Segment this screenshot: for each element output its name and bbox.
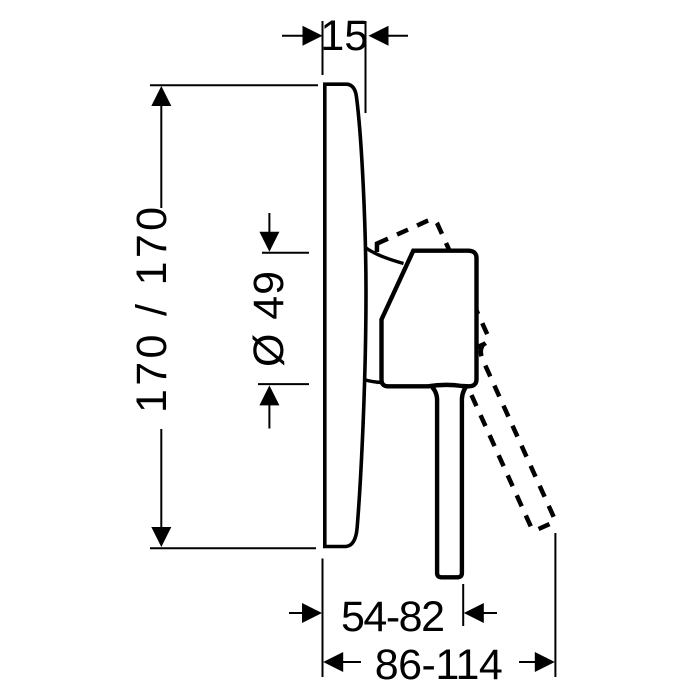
dim 54-82 arrowhead right bbox=[464, 603, 484, 623]
dim d49 ext line top bbox=[262, 252, 309, 254]
dim 54-82 arrow tail left bbox=[289, 612, 303, 614]
dim 15 ext line right bbox=[365, 21, 367, 113]
dim 170 arrowhead up bbox=[151, 86, 171, 106]
svg-text:86-114: 86-114 bbox=[375, 641, 503, 689]
svg-text:54-82: 54-82 bbox=[341, 593, 445, 641]
svg-text:Ø 49: Ø 49 bbox=[245, 271, 293, 367]
dim d49 arrowhead down bbox=[259, 232, 279, 252]
hub arc bottom bbox=[364, 380, 382, 383]
wall plate bbox=[325, 84, 366, 546]
dim d49 arrow tail top bbox=[268, 213, 270, 233]
hub mask bbox=[368, 252, 382, 380]
dim 54-82 arrowhead left bbox=[302, 603, 322, 623]
dim 170 ext line bottom bbox=[150, 547, 316, 549]
dim 15 arrowhead right bbox=[369, 26, 389, 46]
dim 15 ext line left bbox=[322, 21, 324, 75]
hub arc top bbox=[366, 248, 404, 264]
handle lever stem bbox=[429, 384, 469, 577]
dim 86-114 arrowhead right bbox=[535, 652, 555, 672]
dim 54-82 ext line middle bbox=[462, 584, 464, 626]
dim 54-82 arrow tail right bbox=[483, 612, 497, 614]
dim d49 arrow tail bottom bbox=[268, 405, 270, 429]
dashed rotated handle outline bbox=[348, 218, 569, 555]
dim 15 arrow tail left bbox=[282, 35, 303, 37]
dim 86-114 arrowhead left bbox=[323, 652, 343, 672]
dim 170 line upper bbox=[160, 104, 162, 208]
svg-text:15: 15 bbox=[320, 12, 368, 60]
dim 54-82 ext line left bbox=[322, 559, 324, 678]
dim d49 ext line bottom bbox=[258, 383, 309, 385]
dim 86-114 arrow tail right bbox=[519, 661, 536, 663]
svg-text:170 / 170: 170 / 170 bbox=[128, 207, 176, 413]
dim 15 arrow tail right bbox=[388, 35, 408, 37]
handle head bbox=[382, 251, 477, 387]
dim 170 ext line top bbox=[150, 84, 318, 86]
dim 86-114 ext line right bbox=[554, 533, 556, 677]
dim 86-114 arrow tail left bbox=[342, 661, 361, 663]
dim 170 line lower bbox=[160, 429, 162, 529]
dim 15 arrowhead left bbox=[303, 26, 323, 46]
dim d49 arrowhead up bbox=[259, 385, 279, 405]
dim 170 arrowhead down bbox=[151, 527, 171, 547]
